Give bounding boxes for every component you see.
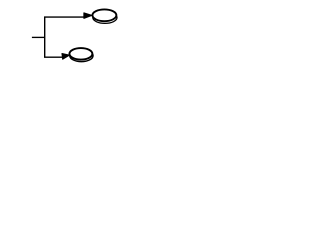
wire: left stub into trunk <box>32 36 45 38</box>
node B (bottom ellipse) <box>69 48 92 60</box>
node A (top ellipse) <box>92 9 116 21</box>
arrowhead to top node <box>84 13 92 18</box>
wire: trunk with top and bottom branch lines <box>45 17 85 57</box>
node B shadow <box>70 50 93 62</box>
node A shadow <box>93 12 117 24</box>
arrowhead to bottom node <box>62 54 69 60</box>
